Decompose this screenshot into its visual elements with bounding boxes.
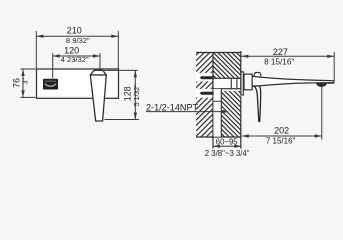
svg-text:76: 76	[12, 78, 22, 88]
wall hatch left band	[196, 33, 213, 158]
dim 120	[53, 53, 100, 78]
wall outline	[196, 51, 241, 149]
top bump	[254, 72, 261, 76]
svg-text:60~95: 60~95	[216, 138, 239, 147]
svg-text:202: 202	[274, 126, 289, 136]
svg-text:2 3/8"~3 3/4": 2 3/8"~3 3/4"	[205, 149, 250, 158]
svg-text:2-1/2-14NPT: 2-1/2-14NPT	[146, 102, 199, 112]
handle lever (side)	[254, 86, 261, 121]
trim plate	[241, 72, 243, 95]
svg-text:227: 227	[273, 47, 288, 57]
spout outlet (front)	[43, 79, 58, 90]
svg-text:3": 3"	[22, 78, 29, 85]
wall hatch right band upper	[213, 20, 241, 108]
wall plate	[37, 69, 119, 98]
dim 202	[242, 86, 322, 139]
spout (side)	[252, 76, 334, 86]
svg-text:5 1/32": 5 1/32"	[134, 84, 141, 106]
svg-text:4 23/32": 4 23/32"	[61, 55, 89, 64]
svg-text:8 9/32": 8 9/32"	[66, 36, 90, 45]
recess below valve	[213, 89, 221, 137]
handle knob (front)	[90, 70, 106, 121]
aerator	[316, 82, 327, 87]
dim 76	[21, 69, 36, 97]
valve body crossing wall	[213, 78, 241, 88]
svg-text:7 15/16": 7 15/16"	[266, 136, 296, 145]
wall hatch right band lower	[221, 60, 241, 158]
supply nipple bottom	[200, 92, 214, 95]
svg-text:128: 128	[123, 86, 133, 101]
white halos around supply nipples	[196, 73, 213, 82]
svg-text:8 15/16": 8 15/16"	[264, 57, 294, 66]
supply nipple top	[200, 76, 214, 79]
dim 60~95	[213, 145, 241, 147]
dim 128	[104, 70, 139, 119]
dim 210	[36, 31, 118, 69]
dim 227	[241, 52, 334, 81]
svg-text:210: 210	[67, 26, 82, 36]
cartridge block	[244, 74, 252, 90]
